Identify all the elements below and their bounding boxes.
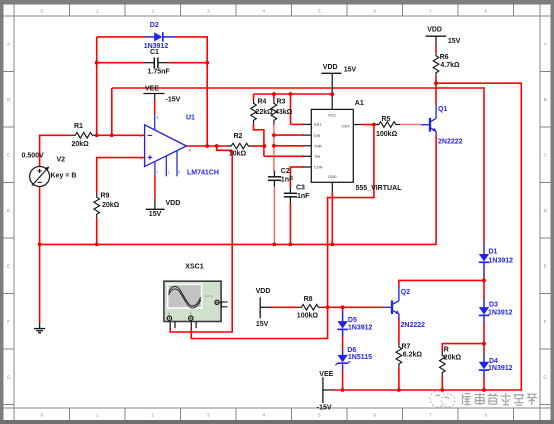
- svg-text:Ext Trig: Ext Trig: [205, 295, 214, 298]
- svg-text:7: 7: [156, 171, 158, 175]
- svg-text:B: B: [544, 97, 547, 102]
- svg-text:20kΩ: 20kΩ: [102, 202, 120, 209]
- svg-text:Key = B: Key = B: [51, 173, 77, 180]
- svg-text:G: G: [7, 375, 11, 380]
- svg-text:RST: RST: [314, 123, 322, 127]
- svg-text:4: 4: [262, 413, 265, 418]
- svg-text:8: 8: [484, 8, 487, 13]
- svg-text:VDD: VDD: [427, 27, 442, 34]
- svg-text:VDD: VDD: [256, 288, 271, 295]
- svg-text:1N3912: 1N3912: [144, 43, 169, 50]
- svg-text:10kΩ: 10kΩ: [229, 151, 247, 158]
- svg-text:1nF: 1nF: [297, 193, 310, 200]
- svg-text:D6: D6: [347, 347, 356, 354]
- svg-text:D1: D1: [489, 249, 498, 256]
- svg-text:LM741CH: LM741CH: [187, 170, 219, 177]
- svg-text:CON: CON: [314, 166, 323, 170]
- svg-text:5: 5: [318, 8, 321, 13]
- svg-text:4.7kΩ: 4.7kΩ: [440, 62, 460, 69]
- svg-text:20kΩ: 20kΩ: [72, 141, 90, 148]
- svg-text:5: 5: [178, 171, 180, 175]
- svg-text:3: 3: [207, 413, 210, 418]
- svg-text:1.75nF: 1.75nF: [148, 69, 171, 76]
- svg-text:A: A: [168, 311, 170, 315]
- svg-text:VDD: VDD: [166, 200, 181, 207]
- svg-text:2: 2: [151, 8, 154, 13]
- svg-text:15V: 15V: [256, 321, 269, 328]
- svg-text:VEE: VEE: [319, 371, 333, 378]
- svg-text:R2: R2: [234, 133, 243, 140]
- svg-text:U1: U1: [186, 115, 195, 122]
- svg-text:D2: D2: [150, 22, 159, 29]
- svg-text:6: 6: [189, 149, 191, 153]
- svg-text:R8: R8: [304, 296, 313, 303]
- svg-text:V2: V2: [57, 156, 66, 163]
- svg-text:0: 0: [40, 413, 43, 418]
- svg-text:F: F: [544, 319, 547, 324]
- svg-text:8: 8: [484, 413, 487, 418]
- svg-text:OUT: OUT: [342, 124, 351, 128]
- svg-text:-15V: -15V: [166, 97, 181, 104]
- svg-text:22kΩ: 22kΩ: [256, 109, 274, 116]
- svg-text:R3: R3: [277, 98, 286, 105]
- svg-text:15V: 15V: [149, 211, 162, 218]
- svg-text:6: 6: [373, 8, 376, 13]
- svg-text:-15V: -15V: [317, 405, 332, 412]
- svg-text:VEE: VEE: [145, 85, 159, 92]
- svg-text:1: 1: [96, 413, 99, 418]
- svg-text:C2: C2: [281, 168, 290, 175]
- svg-text:D3: D3: [489, 302, 498, 309]
- svg-text:E: E: [7, 264, 10, 269]
- svg-text:1N3912: 1N3912: [348, 325, 373, 332]
- svg-text:B: B: [190, 311, 192, 315]
- svg-text:Q2: Q2: [401, 289, 410, 296]
- svg-text:R6: R6: [440, 54, 449, 61]
- svg-text:555_VIRTUAL: 555_VIRTUAL: [356, 185, 403, 192]
- svg-text:100kΩ: 100kΩ: [376, 131, 398, 138]
- svg-text:1: 1: [167, 171, 169, 175]
- svg-text:D4: D4: [489, 358, 498, 365]
- svg-text:3: 3: [140, 156, 142, 160]
- svg-text:Q1: Q1: [438, 106, 447, 113]
- svg-text:R7: R7: [402, 343, 411, 350]
- svg-text:R9: R9: [101, 193, 110, 200]
- svg-text:15V: 15V: [344, 67, 357, 74]
- svg-text:VDD: VDD: [323, 64, 338, 71]
- svg-text:1: 1: [96, 8, 99, 13]
- svg-text:F: F: [7, 319, 10, 324]
- svg-text:B: B: [7, 97, 10, 102]
- svg-text:1N3912: 1N3912: [488, 309, 513, 316]
- svg-text:7: 7: [429, 413, 432, 418]
- svg-text:7: 7: [429, 8, 432, 13]
- svg-text:5: 5: [318, 413, 321, 418]
- svg-text:1N3912: 1N3912: [488, 365, 513, 372]
- svg-text:20kΩ: 20kΩ: [444, 355, 462, 362]
- svg-text:2N2222: 2N2222: [438, 139, 463, 146]
- svg-text:43kΩ: 43kΩ: [275, 109, 293, 116]
- svg-text:XSC1: XSC1: [185, 264, 203, 271]
- svg-text:A1: A1: [355, 100, 364, 107]
- svg-text:0.500V: 0.500V: [22, 153, 45, 160]
- svg-text:4: 4: [262, 8, 265, 13]
- svg-text:1N3912: 1N3912: [489, 258, 514, 265]
- svg-text:6: 6: [373, 413, 376, 418]
- svg-text:GND: GND: [328, 175, 337, 179]
- svg-text:E: E: [544, 264, 547, 269]
- svg-text:100kΩ: 100kΩ: [297, 313, 319, 320]
- svg-text:15V: 15V: [448, 38, 461, 45]
- svg-text:2: 2: [151, 413, 154, 418]
- svg-text:3: 3: [207, 8, 210, 13]
- svg-text:C3: C3: [296, 184, 305, 191]
- svg-text:R1: R1: [74, 123, 83, 130]
- svg-text:1N5115: 1N5115: [348, 354, 372, 361]
- svg-text:R: R: [444, 346, 449, 353]
- svg-text:D5: D5: [348, 317, 357, 324]
- svg-text:1nF: 1nF: [281, 177, 294, 184]
- svg-text:2: 2: [140, 134, 142, 138]
- svg-text:THR: THR: [314, 145, 322, 149]
- svg-text:R5: R5: [382, 116, 391, 123]
- svg-text:DIS: DIS: [314, 134, 321, 138]
- svg-text:VCC: VCC: [328, 114, 336, 118]
- svg-text:G: G: [543, 375, 547, 380]
- svg-text:TRI: TRI: [314, 155, 320, 159]
- svg-text:4: 4: [157, 116, 159, 120]
- svg-text:R4: R4: [258, 98, 267, 105]
- svg-text:6.2kΩ: 6.2kΩ: [403, 352, 423, 359]
- svg-text:0: 0: [40, 8, 43, 13]
- svg-text:2N2222: 2N2222: [401, 322, 426, 329]
